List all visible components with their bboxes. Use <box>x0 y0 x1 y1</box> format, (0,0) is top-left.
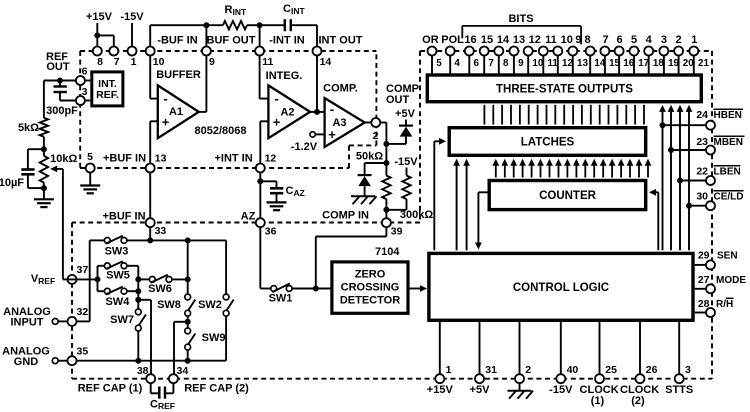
svg-text:2: 2 <box>676 34 682 46</box>
svg-text:COMP IN: COMP IN <box>322 210 369 222</box>
svg-text:SW4: SW4 <box>105 296 130 308</box>
svg-text:9: 9 <box>518 58 524 69</box>
pin 12 <box>553 47 573 70</box>
junction <box>660 122 666 128</box>
svg-text:A1: A1 <box>169 106 183 118</box>
svg-text:INTEG.: INTEG. <box>266 70 303 82</box>
svg-text:35: 35 <box>77 346 89 358</box>
pin 28 R/H <box>698 298 734 317</box>
svg-text:9: 9 <box>575 34 581 46</box>
svg-text:5: 5 <box>631 34 637 46</box>
svg-text:5kΩ: 5kΩ <box>18 122 39 134</box>
pin 3 <box>76 86 88 105</box>
svg-text:8052/8068: 8052/8068 <box>195 125 247 137</box>
pin 38 <box>137 365 155 383</box>
svg-text:COUNTER: COUNTER <box>539 190 597 202</box>
pin 11 <box>255 47 273 69</box>
wire: control logic to pin 29 <box>695 264 706 266</box>
svg-text:-INT IN: -INT IN <box>269 35 304 47</box>
svg-text:10: 10 <box>561 34 573 46</box>
pin 16 <box>615 47 635 70</box>
wire: SW8 column top <box>187 240 189 297</box>
wire: pin33 to SW3 line <box>149 227 151 240</box>
8052/8068 chip dashed outline <box>80 51 376 168</box>
wire: enable line to pin 22 column <box>679 107 681 250</box>
pin 19 <box>659 47 679 70</box>
svg-text:SW3: SW3 <box>105 245 129 257</box>
wire: pin14 to A2 output <box>316 56 318 112</box>
+5V clamp diode <box>386 108 415 144</box>
svg-text:15: 15 <box>609 58 620 69</box>
junction <box>135 358 141 364</box>
svg-text:BITS: BITS <box>508 13 533 25</box>
junction <box>383 141 389 147</box>
junction <box>57 78 63 84</box>
svg-text:27: 27 <box>698 274 710 286</box>
junction (SW8 column) <box>185 237 191 243</box>
junction <box>677 178 683 184</box>
block COUNTER <box>489 181 646 210</box>
wire: VREF line <box>63 278 98 280</box>
svg-text:-: - <box>330 102 334 117</box>
svg-text:COMP.: COMP. <box>323 83 358 95</box>
ground (pin 5) <box>80 173 100 194</box>
svg-text:THREE-STATE OUTPUTS: THREE-STATE OUTPUTS <box>496 84 633 96</box>
wire: SW5/SW4 right column <box>137 266 139 312</box>
wire: pin36 down to SW1 <box>259 227 261 288</box>
svg-text:30: 30 <box>696 190 708 202</box>
junction <box>185 358 191 364</box>
svg-text:36: 36 <box>265 226 277 238</box>
pin 7 <box>109 47 119 69</box>
svg-text:LATCHES: LATCHES <box>521 137 575 149</box>
svg-text:-BUF IN: -BUF IN <box>157 35 197 47</box>
comp in clamp diode to ground <box>351 163 386 204</box>
svg-text:32: 32 <box>77 306 89 318</box>
pin 13 <box>568 47 588 70</box>
svg-text:3: 3 <box>82 86 88 98</box>
svg-text:20: 20 <box>683 58 694 69</box>
switch SW3 <box>104 236 128 258</box>
wire: pin 3 to INT REF <box>85 100 90 102</box>
output pin stubs into three-state outputs <box>432 55 694 75</box>
svg-text:7104: 7104 <box>375 246 400 258</box>
wires: counter to latches bus (arrows) <box>492 159 651 178</box>
pin 21 <box>689 47 709 70</box>
-15V supply <box>120 11 144 46</box>
svg-text:GND: GND <box>14 356 39 368</box>
wire: CINT to INT OUT <box>292 24 317 26</box>
wire: A3 output to pin 2 <box>365 122 372 124</box>
ground (C_AZ) <box>267 201 287 203</box>
svg-text:22: 22 <box>696 166 708 178</box>
svg-text:7: 7 <box>488 58 494 69</box>
pin 33 <box>146 218 167 237</box>
svg-text:18: 18 <box>653 58 664 69</box>
svg-text:-: - <box>163 91 167 106</box>
junction <box>668 147 674 153</box>
svg-text:+5V: +5V <box>395 108 416 120</box>
junction (SW5/SW4 split) <box>95 276 101 282</box>
capacitor C_AZ <box>260 181 304 202</box>
svg-text:13: 13 <box>155 152 167 164</box>
wire: SW7 to gnd line <box>137 331 139 361</box>
junction <box>185 276 191 282</box>
node ANALOG GND <box>2 346 67 369</box>
svg-text:31: 31 <box>485 364 497 376</box>
capacitor 300pF <box>46 81 78 118</box>
pin 5 <box>428 47 443 70</box>
junction <box>41 146 47 152</box>
wire: control logic to pin 26 <box>639 322 641 374</box>
wire: counter enable from control logic <box>657 192 659 250</box>
7104 chip dashed outline <box>72 51 712 379</box>
svg-text:(2): (2) <box>631 395 645 407</box>
wire: control logic to pin 2 <box>519 322 521 374</box>
pin 24 HBEN <box>696 109 743 130</box>
svg-text:INPUT: INPUT <box>11 317 44 329</box>
svg-text:15: 15 <box>481 34 493 46</box>
svg-text:1: 1 <box>131 56 137 68</box>
wire: control logic to pin 1 <box>439 322 441 374</box>
svg-text:1: 1 <box>691 34 697 46</box>
resistor RINT <box>223 4 247 29</box>
pin 22 LBEN <box>696 166 740 186</box>
svg-text:6: 6 <box>616 34 622 46</box>
pin 25 <box>595 364 617 383</box>
wire: pin10 to A1 inverting input <box>149 56 151 99</box>
junction <box>383 207 389 213</box>
switch SW8 <box>157 294 195 316</box>
label STTS <box>665 384 693 396</box>
svg-text:R/H: R/H <box>716 299 733 310</box>
svg-text:33: 33 <box>155 225 167 237</box>
svg-text:34: 34 <box>177 365 189 377</box>
pin 2 <box>515 364 531 383</box>
junction (pin11 rail) <box>257 22 263 28</box>
pin 29 SEN <box>698 249 738 269</box>
junction (ref cap 2 tap) <box>187 316 189 331</box>
block CONTROL LOGIC <box>429 253 693 320</box>
svg-text:11: 11 <box>545 34 557 46</box>
pin 9 <box>509 47 524 70</box>
wire: pin32 to switch column <box>77 320 90 322</box>
wire: SW3 line <box>90 239 105 241</box>
svg-text:7: 7 <box>602 34 608 46</box>
svg-text:300kΩ: 300kΩ <box>400 209 433 221</box>
svg-text:-15V: -15V <box>120 11 144 23</box>
pin 26 <box>636 364 658 383</box>
node REF OUT <box>46 51 70 73</box>
pin 4 <box>446 47 461 70</box>
svg-text:CREF: CREF <box>150 399 175 412</box>
wire: control logic to pin 28 <box>695 312 706 314</box>
wire: enable line to pin 24 column <box>662 107 664 250</box>
pin 36 <box>256 218 277 237</box>
wire: pin 6 to INT REF <box>85 80 90 82</box>
junction (ref cap 1 tap) <box>135 297 141 303</box>
pin 12 <box>256 152 277 172</box>
junction <box>135 288 141 294</box>
wire: pin9 stub <box>205 25 207 46</box>
svg-text:17: 17 <box>638 58 649 69</box>
wire: pin10 stub <box>149 25 151 46</box>
svg-text:SW2: SW2 <box>198 299 222 311</box>
svg-text:5: 5 <box>436 58 442 69</box>
svg-text:10µF: 10µF <box>0 177 24 189</box>
pin 35 <box>68 346 89 366</box>
switch SW1 <box>269 284 293 305</box>
svg-text:DETECTOR: DETECTOR <box>340 295 400 307</box>
pin 27 MODE <box>698 274 747 293</box>
svg-text:14: 14 <box>497 34 510 46</box>
wire: pin12 to pin36 <box>259 173 261 219</box>
capacitor C_REF <box>150 383 175 411</box>
svg-text:10: 10 <box>153 56 165 68</box>
svg-text:OUT: OUT <box>46 61 70 73</box>
svg-text:21: 21 <box>698 58 709 69</box>
block LATCHES <box>449 128 646 156</box>
svg-text:OUT: OUT <box>386 94 410 106</box>
svg-text:MBEN: MBEN <box>714 137 743 148</box>
wire: detector to control logic (arrow) <box>410 288 421 290</box>
pin 9 <box>202 47 215 69</box>
pin 2 <box>371 118 380 142</box>
wire: to pin 34 <box>174 321 188 323</box>
capacitor 10uF <box>0 149 44 189</box>
svg-text:BUF OUT: BUF OUT <box>207 35 256 47</box>
wire: to pin 38 <box>138 299 151 301</box>
node COMP OUT <box>386 83 419 106</box>
wire: control logic to pin 27 <box>695 288 706 290</box>
svg-text:10kΩ: 10kΩ <box>50 153 77 165</box>
pin 17 <box>630 47 650 70</box>
pin 23 MBEN <box>696 136 744 155</box>
svg-text:CE/LD: CE/LD <box>714 191 744 202</box>
pin 10 <box>146 47 165 69</box>
svg-text:29: 29 <box>698 249 710 261</box>
node ANALOG INPUT <box>3 306 67 329</box>
svg-text:2: 2 <box>373 130 379 142</box>
label BITS with bracket <box>462 13 581 44</box>
svg-text:38: 38 <box>137 365 149 377</box>
svg-text:3: 3 <box>661 34 667 46</box>
svg-text:6: 6 <box>82 66 88 78</box>
svg-text:8: 8 <box>97 56 103 68</box>
svg-text:50kΩ: 50kΩ <box>356 151 383 163</box>
switch SW9 <box>185 328 226 350</box>
wire: buffer feedback rail <box>150 24 223 26</box>
svg-text:CONTROL LOGIC: CONTROL LOGIC <box>513 282 609 294</box>
pin 14 <box>586 47 606 70</box>
block ZERO CROSSING DETECTOR <box>332 262 408 313</box>
pin 40 <box>556 364 578 383</box>
pin 30 CE/LD <box>696 190 743 210</box>
wire <box>247 24 284 26</box>
wire: enable line to pin 30 column <box>688 107 690 250</box>
svg-text:OR: OR <box>422 34 439 46</box>
svg-text:28: 28 <box>698 298 710 310</box>
svg-text:2: 2 <box>525 364 531 376</box>
switch SW6 <box>138 275 187 295</box>
block THREE-STATE OUTPUTS <box>427 75 701 102</box>
wire: pin9 down to A1 output <box>205 56 207 112</box>
svg-text:7: 7 <box>114 56 120 68</box>
block INT. REF. <box>92 72 123 106</box>
svg-text:REF CAP (2): REF CAP (2) <box>184 383 249 395</box>
svg-text:STTS: STTS <box>665 384 693 396</box>
svg-text:37: 37 <box>77 264 89 276</box>
svg-text:40: 40 <box>567 364 579 376</box>
wire: pot wiper to VREF <box>62 169 64 280</box>
wire: pin39 branch to comparator input <box>315 237 317 289</box>
svg-text:SW6: SW6 <box>148 283 172 295</box>
svg-text:26: 26 <box>646 364 658 376</box>
+15V supply <box>86 11 114 46</box>
switch SW5 branch <box>98 261 139 281</box>
svg-text:SEN: SEN <box>717 250 738 261</box>
wire: latch enable from control logic <box>433 141 435 250</box>
wire: REF OUT to pin 6 <box>44 80 76 82</box>
junction (pin9 rail) <box>203 22 209 28</box>
svg-text:16: 16 <box>623 58 634 69</box>
wire: SW1 to detector <box>292 288 330 290</box>
op-amp A2 <box>268 85 310 138</box>
resistor 5k <box>18 81 48 150</box>
wire: SW2 to gnd line <box>225 316 227 361</box>
svg-text:14: 14 <box>320 56 332 68</box>
svg-text:SW7: SW7 <box>110 314 134 326</box>
svg-text:1: 1 <box>446 364 452 376</box>
wire: analog gnd line <box>77 360 227 362</box>
svg-text:CROSSING: CROSSING <box>341 282 400 294</box>
svg-text:AZ: AZ <box>241 210 256 222</box>
svg-text:8: 8 <box>503 58 509 69</box>
label +15V <box>427 384 454 396</box>
svg-text:+BUF IN: +BUF IN <box>103 152 146 164</box>
junction (pin33) <box>147 237 153 243</box>
ground (divider) <box>34 188 54 207</box>
svg-text:16: 16 <box>464 34 476 46</box>
wire: control logic to pin 40 <box>560 322 562 374</box>
svg-text:-15V: -15V <box>549 384 573 396</box>
junction <box>686 203 692 209</box>
svg-text:13: 13 <box>513 34 525 46</box>
label -15V <box>549 384 573 396</box>
svg-text:INT OUT: INT OUT <box>319 35 363 47</box>
op-amp A3 <box>325 98 365 147</box>
label CLOCK <box>620 384 659 407</box>
svg-text:SW8: SW8 <box>157 299 181 311</box>
resistor 50k <box>356 144 391 210</box>
pin 14 <box>313 47 332 69</box>
wire: pin11 stub <box>259 25 261 46</box>
svg-text:+INT IN: +INT IN <box>214 152 252 164</box>
svg-text:SW9: SW9 <box>202 332 226 344</box>
svg-text:13: 13 <box>577 58 588 69</box>
svg-text:6: 6 <box>474 58 480 69</box>
wire: pin12 to A2 non-inverting input <box>260 120 268 122</box>
junction <box>135 276 141 282</box>
pin 20 <box>674 47 694 70</box>
svg-text:4: 4 <box>646 34 653 46</box>
switch SW2 <box>198 240 234 316</box>
capacitor CINT <box>283 3 305 31</box>
svg-text:4: 4 <box>454 58 460 69</box>
pin 11 <box>539 47 559 70</box>
svg-text:+BUF IN: +BUF IN <box>102 210 145 222</box>
svg-text:5: 5 <box>87 151 93 163</box>
wire: SW9 to gnd line <box>187 350 189 361</box>
pin 1 <box>128 47 137 69</box>
junction (comp in node) <box>383 160 389 166</box>
svg-text:+: + <box>328 127 336 142</box>
svg-text:11: 11 <box>262 56 273 68</box>
pin 10 <box>524 47 544 70</box>
wire: pin13 to pin33 <box>149 173 151 219</box>
pin 31 <box>475 364 497 383</box>
svg-text:A2: A2 <box>280 107 294 119</box>
wire: pin 2 to clamp node <box>380 122 386 124</box>
svg-text:+15V: +15V <box>427 384 454 396</box>
wire to pin 39 <box>385 210 387 218</box>
pin 6 <box>465 47 480 70</box>
label +5V <box>470 384 491 396</box>
potentiometer 10k <box>40 149 78 188</box>
pin 6 <box>76 66 88 86</box>
svg-text:+5V: +5V <box>470 384 491 396</box>
wire: control logic to pin 25 <box>599 322 601 374</box>
svg-text:BUFFER: BUFFER <box>156 69 201 81</box>
svg-text:12: 12 <box>265 152 277 164</box>
op-amp A1 <box>158 85 199 138</box>
svg-text:LBEN: LBEN <box>714 167 741 178</box>
junction <box>41 185 47 191</box>
svg-text:POL: POL <box>441 34 464 46</box>
resistor 300k with -15V <box>386 156 433 221</box>
svg-text:24: 24 <box>696 109 708 121</box>
svg-text:10: 10 <box>532 58 543 69</box>
svg-text:HBEN: HBEN <box>714 110 742 121</box>
wire: A2 output to A3 <box>310 111 325 113</box>
svg-text:SW5: SW5 <box>106 269 130 281</box>
wire: control logic to pin 3 <box>678 322 680 374</box>
pin 15 <box>600 47 620 70</box>
svg-text:+15V: +15V <box>86 11 113 23</box>
pin 1 <box>435 364 451 383</box>
pin 18 <box>644 47 664 70</box>
junction <box>94 32 100 38</box>
svg-text:REF CAP (1): REF CAP (1) <box>78 383 143 395</box>
pin 13 <box>146 152 167 172</box>
svg-text:12: 12 <box>562 58 573 69</box>
svg-text:-1.2V: -1.2V <box>291 141 318 153</box>
svg-text:25: 25 <box>605 364 617 376</box>
svg-text:ZERO: ZERO <box>355 269 386 281</box>
svg-text:A3: A3 <box>332 117 346 129</box>
label CLOCK <box>580 384 619 407</box>
wire: A1 output to pin 9 <box>199 111 207 113</box>
svg-text:3: 3 <box>685 364 691 376</box>
pin 34 <box>169 365 188 383</box>
wire: enable line to pin 23 column <box>670 107 672 250</box>
junction (C_AZ tap) <box>257 178 263 184</box>
pin 37 <box>68 264 89 284</box>
wires: control logic to latches (2 lines) <box>456 161 458 250</box>
svg-text:12: 12 <box>529 34 541 46</box>
wire: pin11 to A2 inverting input <box>259 56 261 99</box>
wire: control logic to pin 31 <box>479 322 481 374</box>
